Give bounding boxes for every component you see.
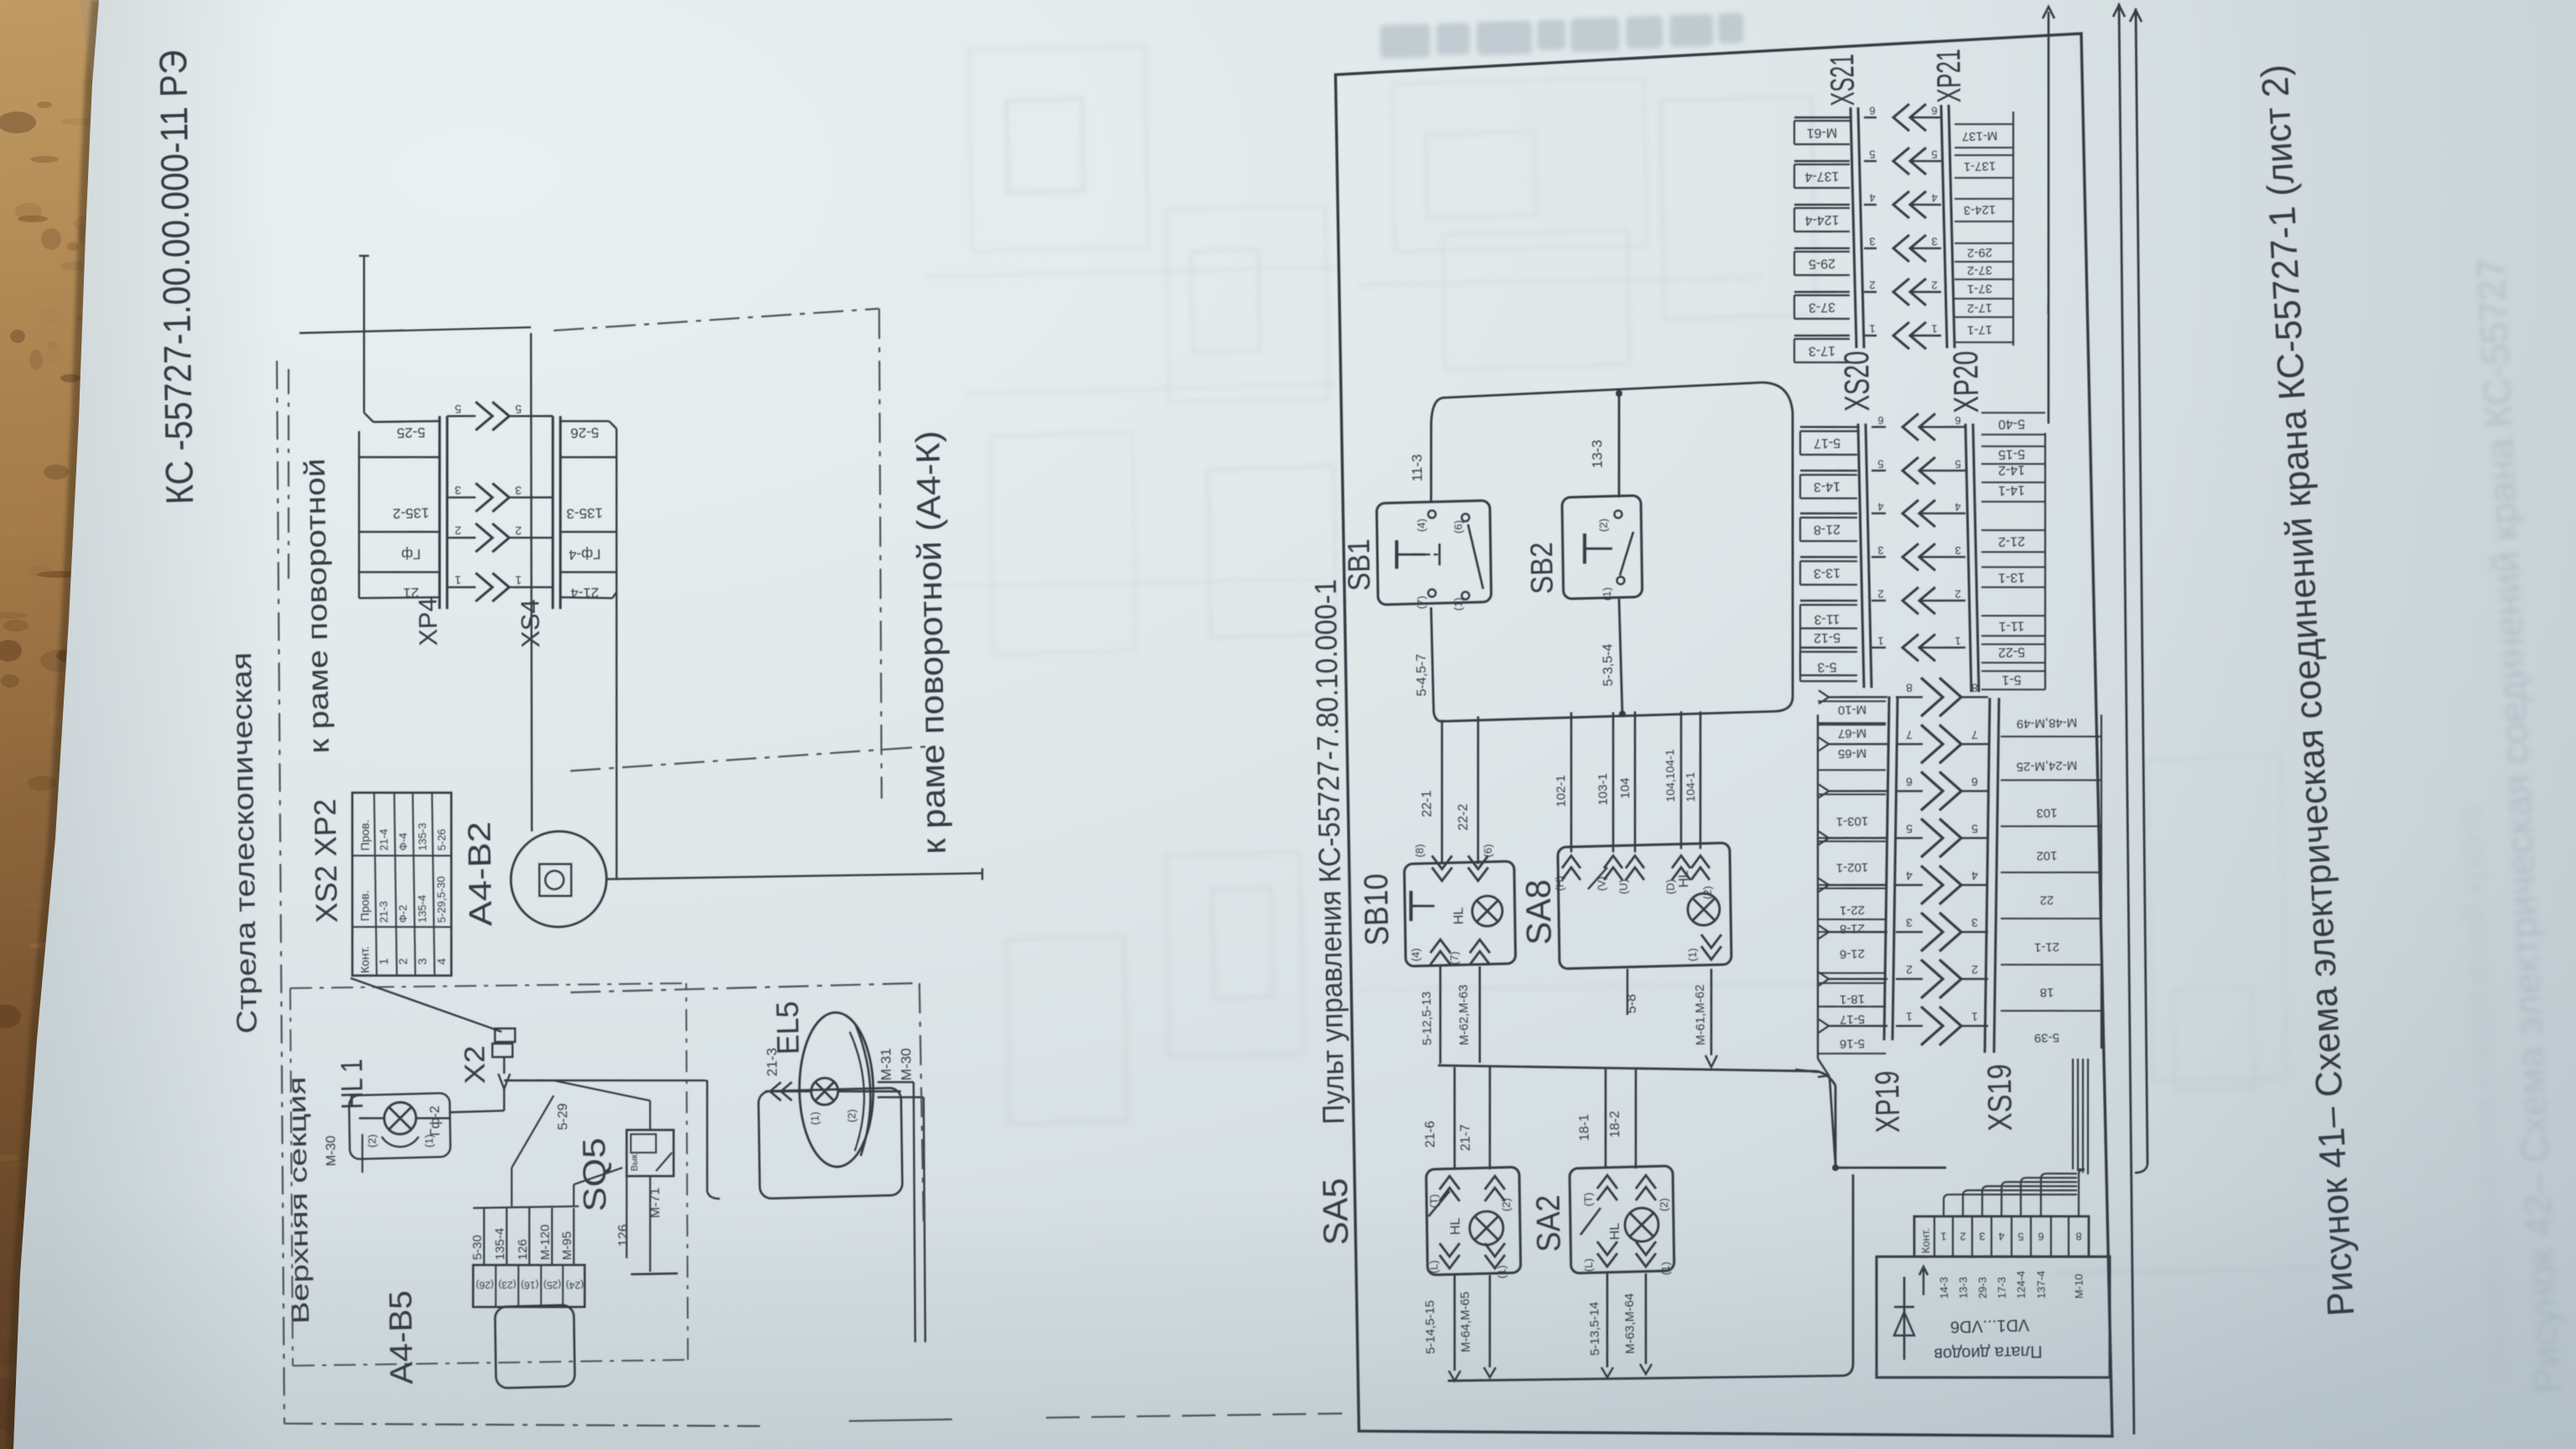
svg-text:37-3: 37-3	[1809, 299, 1836, 314]
svg-text:37-1: 37-1	[1967, 281, 1992, 296]
svg-text:Гф-4: Гф-4	[569, 546, 601, 563]
svg-text:135-3: 135-3	[566, 505, 603, 522]
svg-text:(6): (6)	[1452, 520, 1464, 533]
svg-text:5-22: 5-22	[1998, 644, 2025, 659]
svg-text:Пров.: Пров.	[358, 819, 372, 850]
svg-text:HL 1: HL 1	[334, 1058, 369, 1109]
svg-text:102-1: 102-1	[1836, 860, 1869, 875]
svg-text:5: 5	[1869, 148, 1875, 160]
svg-text:3: 3	[454, 484, 461, 497]
svg-text:(L): (L)	[1582, 1259, 1595, 1272]
svg-text:21-8: 21-8	[1840, 922, 1865, 937]
svg-text:6: 6	[1931, 105, 1937, 117]
svg-text:VD1...VD6: VD1...VD6	[1950, 1315, 2030, 1335]
svg-text:5-16: 5-16	[1840, 1036, 1865, 1052]
svg-text:(8): (8)	[1413, 844, 1426, 857]
svg-text:(1): (1)	[1495, 1265, 1508, 1279]
svg-text:5: 5	[454, 402, 461, 416]
svg-text:4: 4	[434, 958, 448, 964]
svg-text:М-31: М-31	[878, 1048, 895, 1081]
svg-text:Пров.: Пров.	[358, 890, 372, 921]
svg-text:М-10: М-10	[1838, 702, 1867, 717]
svg-text:(T): (T)	[1427, 1194, 1440, 1208]
svg-text:М-64,М-65: М-64,М-65	[1458, 1291, 1473, 1353]
svg-text:126: 126	[616, 1224, 631, 1247]
svg-text:13-1: 13-1	[1998, 569, 2025, 584]
svg-text:EL5: EL5	[770, 1000, 805, 1055]
svg-text:(4): (4)	[1409, 948, 1421, 961]
svg-text:14-3: 14-3	[1938, 1277, 1950, 1299]
svg-text:Конт.: Конт.	[358, 946, 371, 974]
svg-text:3: 3	[1955, 544, 1961, 557]
svg-text:29-3: 29-3	[1976, 1277, 1989, 1299]
svg-text:11-3: 11-3	[1409, 454, 1425, 481]
svg-text:2: 2	[1931, 279, 1937, 292]
svg-text:(2): (2)	[1657, 1198, 1670, 1212]
svg-text:М-10: М-10	[2073, 1274, 2085, 1299]
svg-text:XP19: XP19	[1869, 1070, 1907, 1133]
svg-text:М-30: М-30	[325, 1135, 340, 1166]
svg-text:(2): (2)	[366, 1135, 378, 1148]
svg-text:124-4: 124-4	[2014, 1270, 2027, 1299]
svg-text:7: 7	[1971, 728, 1978, 741]
svg-text:22: 22	[2039, 893, 2054, 907]
svg-text:Гф-2: Гф-2	[428, 1105, 444, 1136]
svg-text:X2: X2	[460, 1045, 492, 1084]
svg-text:5: 5	[1906, 822, 1913, 835]
svg-text:(2): (2)	[1597, 518, 1610, 532]
svg-text:21-6: 21-6	[1423, 1120, 1437, 1148]
svg-text:(1): (1)	[1452, 597, 1464, 610]
svg-text:2: 2	[515, 524, 522, 538]
svg-text:2: 2	[1877, 588, 1883, 600]
svg-text:135-3: 135-3	[416, 823, 428, 851]
svg-text:1: 1	[1940, 1230, 1946, 1243]
svg-text:3: 3	[515, 484, 522, 497]
svg-text:126: 126	[516, 1239, 530, 1259]
svg-text:29-5: 29-5	[1809, 256, 1836, 271]
svg-text:103-1: 103-1	[1836, 813, 1869, 828]
svg-text:(H): (H)	[1553, 875, 1566, 891]
svg-text:1: 1	[1955, 635, 1961, 647]
svg-text:М-61: М-61	[1806, 125, 1837, 140]
svg-text:17-1: 17-1	[1967, 322, 1992, 337]
svg-text:5-3,5-4: 5-3,5-4	[1601, 643, 1616, 686]
svg-text:М-120: М-120	[538, 1224, 553, 1260]
svg-text:Конт.: Конт.	[1919, 1228, 1931, 1253]
svg-text:2: 2	[454, 524, 461, 538]
svg-text:5: 5	[1971, 822, 1978, 835]
svg-text:HL: HL	[1607, 1223, 1622, 1240]
svg-text:21-2: 21-2	[1998, 533, 2025, 548]
svg-text:SB10: SB10	[1358, 873, 1395, 946]
svg-text:3: 3	[1877, 544, 1883, 557]
svg-text:2: 2	[1960, 1230, 1966, 1243]
svg-text:5-8: 5-8	[1624, 994, 1639, 1014]
svg-text:6: 6	[1869, 104, 1875, 117]
svg-text:5-1: 5-1	[2002, 672, 2021, 687]
svg-text:2: 2	[1906, 963, 1913, 976]
svg-text:SQ5: SQ5	[577, 1137, 613, 1212]
svg-text:Гф: Гф	[401, 546, 420, 563]
svg-text:(1): (1)	[808, 1112, 821, 1125]
svg-text:5: 5	[515, 402, 522, 416]
svg-text:SA8: SA8	[1519, 879, 1559, 945]
svg-text:М-65: М-65	[1838, 745, 1867, 761]
svg-text:7: 7	[1906, 728, 1913, 741]
svg-text:XP21: XP21	[1930, 49, 1968, 103]
svg-text:1: 1	[1931, 323, 1937, 335]
svg-text:11-1: 11-1	[1998, 618, 2024, 633]
svg-text:6: 6	[1877, 414, 1883, 427]
svg-text:135-2: 135-2	[392, 505, 429, 522]
svg-text:XS20: XS20	[1836, 351, 1877, 412]
svg-text:5-4,5-7: 5-4,5-7	[1415, 653, 1430, 696]
svg-text:18: 18	[2040, 985, 2054, 1000]
svg-text:SB2: SB2	[1524, 542, 1560, 595]
svg-text:14-2: 14-2	[1998, 462, 2025, 477]
svg-text:6: 6	[2038, 1230, 2044, 1243]
svg-text:103: 103	[2036, 806, 2057, 821]
svg-text:8: 8	[1906, 681, 1913, 694]
svg-text:КС -55727-1.00.00.000-11 РЭ: КС -55727-1.00.00.000-11 РЭ	[151, 49, 201, 505]
svg-text:3: 3	[1906, 916, 1913, 929]
svg-text:М-24,М-25: М-24,М-25	[2017, 758, 2078, 774]
svg-text:5-17: 5-17	[1814, 435, 1841, 450]
svg-text:4: 4	[1869, 191, 1875, 204]
svg-text:5-14,5-15: 5-14,5-15	[1423, 1300, 1438, 1354]
svg-text:Ф-4: Ф-4	[397, 833, 409, 851]
svg-text:XS2 XP2: XS2 XP2	[308, 798, 344, 923]
svg-text:21-6: 21-6	[1840, 947, 1865, 962]
svg-text:(7): (7)	[1415, 595, 1427, 609]
svg-text:XS4: XS4	[515, 599, 545, 648]
svg-text:М-48,М-49: М-48,М-49	[2017, 715, 2078, 731]
svg-text:4: 4	[1955, 501, 1961, 513]
svg-text:Вык: Вык	[630, 1154, 640, 1171]
svg-text:13-3: 13-3	[1814, 565, 1841, 580]
svg-text:18-2: 18-2	[1607, 1110, 1622, 1138]
svg-text:18-1: 18-1	[1840, 992, 1865, 1007]
svg-text:(U): (U)	[1617, 879, 1629, 894]
svg-text:4: 4	[1906, 869, 1913, 882]
svg-text:5: 5	[1877, 458, 1883, 470]
svg-text:6: 6	[1971, 775, 1978, 788]
svg-text:22-2: 22-2	[1456, 803, 1470, 831]
svg-text:Стрела телескопическая: Стрела телескопическая	[226, 652, 263, 1034]
svg-text:SA5: SA5	[1315, 1177, 1355, 1245]
svg-text:Плата диодов: Плата диодов	[1934, 1342, 2043, 1363]
svg-text:5-12,5-13: 5-12,5-13	[1420, 991, 1435, 1046]
svg-text:3: 3	[1979, 1230, 1985, 1243]
svg-text:5: 5	[2018, 1230, 2023, 1243]
svg-text:4: 4	[1877, 501, 1883, 513]
svg-text:102: 102	[2036, 849, 2057, 864]
svg-text:29-2: 29-2	[1967, 245, 1992, 260]
svg-text:5-39: 5-39	[2034, 1031, 2059, 1046]
svg-text:HL: HL	[1448, 1218, 1462, 1235]
svg-text:102-1: 102-1	[1554, 775, 1569, 808]
svg-text:13-3: 13-3	[1589, 439, 1606, 469]
svg-text:SB1: SB1	[1342, 538, 1377, 591]
svg-text:к раме поворотной (А4-К): к раме поворотной (А4-К)	[910, 430, 953, 854]
svg-text:5-29,5-30: 5-29,5-30	[434, 876, 448, 923]
svg-text:(25): (25)	[543, 1279, 562, 1291]
svg-text:5-26: 5-26	[435, 828, 448, 850]
svg-text:(23): (23)	[498, 1279, 517, 1291]
svg-text:137-4: 137-4	[1805, 169, 1839, 184]
svg-text:М-61,М-62: М-61,М-62	[1693, 984, 1708, 1046]
svg-text:14-3: 14-3	[1814, 479, 1841, 494]
svg-text:М-95: М-95	[560, 1231, 575, 1260]
svg-text:XS19: XS19	[1981, 1063, 2019, 1131]
svg-text:5-3: 5-3	[1817, 659, 1836, 674]
svg-text:3: 3	[1869, 235, 1875, 247]
svg-text:Ф-2: Ф-2	[397, 905, 409, 923]
svg-text:2: 2	[1955, 588, 1961, 600]
svg-text:1: 1	[1971, 1010, 1978, 1023]
svg-text:М-67: М-67	[1838, 725, 1867, 740]
svg-text:11-3: 11-3	[1814, 611, 1840, 626]
svg-text:13-3: 13-3	[1957, 1277, 1970, 1299]
svg-text:17-3: 17-3	[1809, 343, 1836, 358]
svg-text:135-4: 135-4	[416, 895, 428, 923]
svg-text:21-1: 21-1	[2034, 940, 2059, 955]
svg-text:5-13,5-14: 5-13,5-14	[1587, 1301, 1602, 1356]
svg-text:XS21: XS21	[1824, 54, 1862, 106]
svg-text:5-25: 5-25	[397, 424, 425, 441]
svg-text:4: 4	[1971, 869, 1978, 882]
svg-text:124-4: 124-4	[1805, 212, 1839, 227]
svg-text:к раме поворотной: к раме поворотной	[299, 458, 335, 754]
svg-text:(T): (T)	[1581, 1192, 1594, 1207]
svg-text:103-1: 103-1	[1596, 773, 1611, 806]
svg-text:21-4: 21-4	[377, 828, 390, 850]
svg-text:(2): (2)	[1499, 1198, 1512, 1212]
svg-text:18-1: 18-1	[1577, 1114, 1592, 1141]
svg-text:104: 104	[1618, 777, 1632, 798]
svg-text:1: 1	[377, 958, 390, 964]
svg-text:104-1: 104-1	[1683, 771, 1697, 802]
svg-text:5-29: 5-29	[556, 1103, 570, 1130]
svg-text:21-7: 21-7	[1458, 1124, 1472, 1151]
svg-text:1: 1	[1869, 323, 1875, 335]
svg-text:137-1: 137-1	[1964, 158, 1997, 174]
svg-text:5-15: 5-15	[1998, 446, 2025, 461]
svg-text:21-3: 21-3	[377, 901, 390, 922]
svg-text:HL: HL	[1676, 870, 1690, 888]
svg-text:104,104-1: 104,104-1	[1663, 749, 1677, 802]
svg-text:5-30: 5-30	[470, 1234, 485, 1259]
svg-text:A4-B5: A4-B5	[383, 1290, 420, 1384]
svg-text:A4-B2: A4-B2	[462, 821, 499, 927]
svg-text:1: 1	[515, 574, 522, 587]
svg-text:HL: HL	[1452, 907, 1466, 925]
svg-text:2: 2	[1971, 963, 1978, 976]
svg-text:5-12: 5-12	[1814, 630, 1841, 645]
svg-text:SA2: SA2	[1530, 1194, 1568, 1252]
svg-text:(D): (D)	[1665, 879, 1677, 894]
svg-text:21-3: 21-3	[764, 1047, 781, 1077]
svg-text:17-2: 17-2	[1967, 300, 1992, 315]
svg-text:М-62,М-63: М-62,М-63	[1457, 984, 1472, 1046]
svg-text:22-1: 22-1	[1840, 903, 1865, 918]
svg-text:5: 5	[1955, 458, 1961, 470]
svg-text:М-137: М-137	[1962, 128, 1998, 143]
svg-text:5: 5	[1931, 148, 1937, 161]
svg-text:135-4: 135-4	[493, 1228, 508, 1260]
svg-text:21-8: 21-8	[1814, 522, 1841, 537]
svg-text:(1): (1)	[1601, 587, 1613, 600]
svg-text:Верхняя секция: Верхняя секция	[283, 1076, 314, 1324]
svg-text:(16): (16)	[521, 1279, 539, 1291]
svg-text:5-17: 5-17	[1840, 1012, 1865, 1027]
svg-text:6: 6	[1906, 775, 1913, 788]
svg-text:XP4: XP4	[413, 597, 443, 647]
svg-text:22-1: 22-1	[1420, 790, 1434, 818]
svg-text:XP20: XP20	[1945, 351, 1986, 413]
svg-text:5-40: 5-40	[1998, 416, 2025, 431]
svg-text:17-3: 17-3	[1996, 1277, 2008, 1299]
svg-text:4: 4	[1998, 1230, 2004, 1243]
svg-text:(1): (1)	[1686, 948, 1699, 962]
svg-text:(2): (2)	[845, 1109, 858, 1123]
svg-text:8: 8	[2075, 1230, 2081, 1243]
svg-text:2: 2	[396, 958, 409, 964]
svg-text:1: 1	[1906, 1010, 1913, 1023]
svg-text:124-3: 124-3	[1964, 202, 1997, 217]
svg-text:(1): (1)	[1659, 1262, 1672, 1275]
svg-text:3: 3	[1971, 916, 1978, 929]
svg-text:21-4: 21-4	[570, 584, 599, 601]
svg-text:5-26: 5-26	[570, 424, 599, 441]
svg-text:1: 1	[454, 574, 461, 587]
svg-text:(7): (7)	[1447, 951, 1460, 964]
svg-text:2: 2	[1869, 279, 1875, 292]
svg-text:1: 1	[1877, 635, 1883, 647]
svg-text:(6): (6)	[1481, 844, 1493, 857]
svg-text:137-4: 137-4	[2034, 1270, 2047, 1299]
svg-text:М-30: М-30	[898, 1048, 915, 1081]
svg-text:(L): (L)	[1427, 1260, 1440, 1274]
svg-text:14-1: 14-1	[1998, 482, 2025, 497]
svg-text:3: 3	[1931, 236, 1937, 248]
svg-text:(4): (4)	[1415, 518, 1427, 532]
svg-text:(26): (26)	[475, 1279, 494, 1291]
svg-text:3: 3	[415, 958, 428, 964]
svg-text:6: 6	[1955, 414, 1961, 427]
svg-text:М-63,М-64: М-63,М-64	[1623, 1293, 1638, 1354]
svg-text:(24): (24)	[566, 1279, 584, 1291]
svg-text:37-2: 37-2	[1967, 262, 1992, 278]
svg-text:4: 4	[1931, 192, 1937, 205]
